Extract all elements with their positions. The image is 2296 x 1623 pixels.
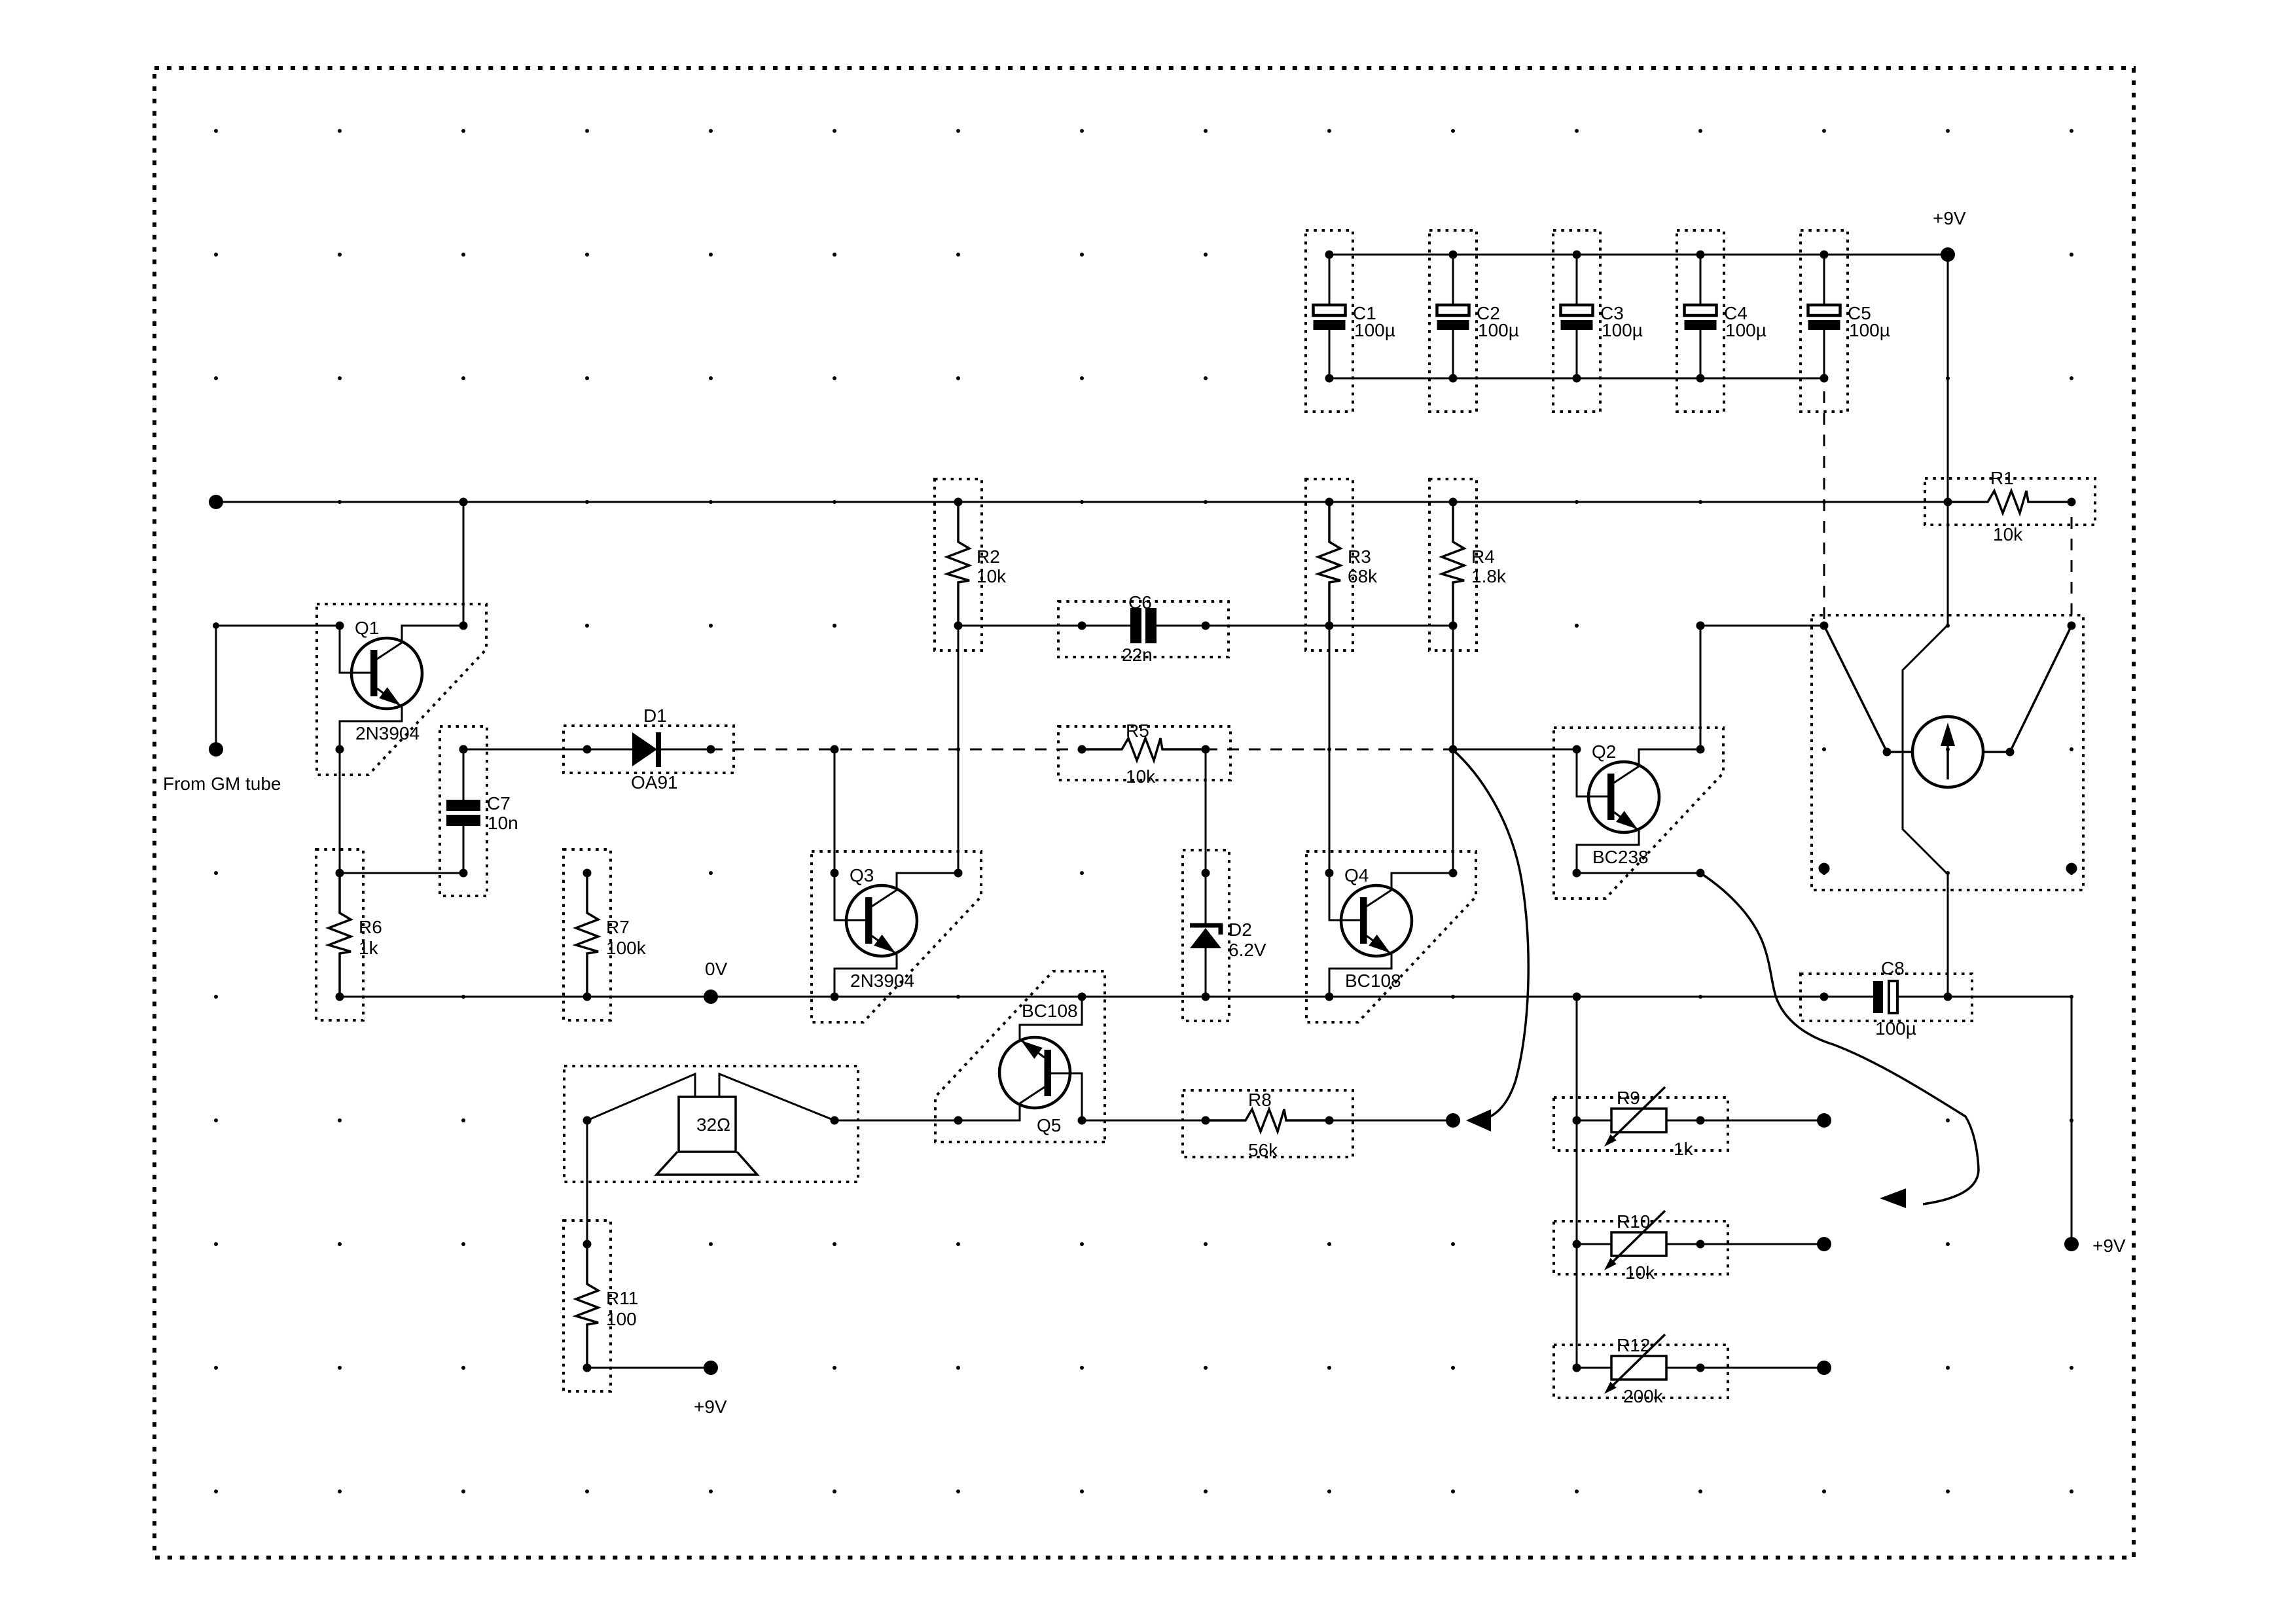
svg-text:D2: D2	[1229, 919, 1252, 940]
svg-text:100µ: 100µ	[1478, 320, 1519, 340]
svg-text:100µ: 100µ	[1849, 320, 1890, 340]
svg-text:R6: R6	[359, 917, 382, 937]
svg-text:+9V: +9V	[2092, 1236, 2126, 1256]
svg-text:Q2: Q2	[1592, 741, 1616, 762]
svg-text:2N3904: 2N3904	[355, 723, 420, 743]
svg-text:Q4: Q4	[1344, 865, 1369, 885]
svg-text:R8: R8	[1248, 1090, 1272, 1110]
svg-text:1k: 1k	[359, 938, 379, 958]
svg-text:56k: 56k	[1248, 1140, 1278, 1160]
svg-text:100µ: 100µ	[1875, 1018, 1916, 1039]
svg-text:R11: R11	[606, 1288, 638, 1308]
svg-text:6.2V: 6.2V	[1229, 940, 1266, 960]
svg-text:C7: C7	[487, 793, 511, 813]
svg-text:+9V: +9V	[694, 1397, 727, 1417]
svg-text:BC108: BC108	[1345, 971, 1401, 991]
svg-text:+9V: +9V	[1933, 208, 1966, 228]
svg-text:1k: 1k	[1674, 1139, 1694, 1159]
svg-text:BC238: BC238	[1592, 847, 1649, 867]
svg-text:0V: 0V	[705, 959, 728, 979]
svg-text:68k: 68k	[1348, 566, 1378, 586]
svg-text:Q3: Q3	[850, 865, 874, 885]
svg-text:100k: 100k	[606, 938, 647, 958]
svg-text:10k: 10k	[1625, 1262, 1655, 1283]
svg-text:10k: 10k	[1993, 524, 2023, 544]
svg-text:100µ: 100µ	[1354, 320, 1395, 340]
svg-text:C6: C6	[1128, 592, 1152, 613]
svg-text:R7: R7	[606, 917, 630, 937]
svg-text:OA91: OA91	[631, 772, 678, 793]
svg-text:Q1: Q1	[355, 618, 379, 638]
svg-text:100: 100	[606, 1309, 637, 1329]
svg-text:From GM tube: From GM tube	[163, 774, 281, 794]
svg-text:R12: R12	[1617, 1335, 1650, 1355]
svg-text:BC108: BC108	[1022, 1001, 1078, 1021]
svg-text:C8: C8	[1881, 958, 1905, 978]
svg-text:2N3904: 2N3904	[850, 971, 914, 991]
svg-text:1.8k: 1.8k	[1471, 566, 1507, 586]
svg-text:32Ω: 32Ω	[696, 1115, 730, 1135]
svg-text:22n: 22n	[1122, 645, 1153, 665]
svg-text:10n: 10n	[488, 813, 518, 833]
svg-text:R4: R4	[1471, 546, 1495, 567]
svg-text:R10: R10	[1617, 1211, 1650, 1232]
svg-text:10k: 10k	[977, 566, 1007, 586]
svg-text:100µ: 100µ	[1602, 320, 1643, 340]
svg-text:R3: R3	[1348, 546, 1371, 567]
svg-text:R1: R1	[1990, 468, 2014, 488]
svg-text:10k: 10k	[1126, 766, 1156, 787]
svg-text:Q5: Q5	[1037, 1115, 1061, 1135]
svg-text:D1: D1	[643, 705, 667, 726]
svg-text:100µ: 100µ	[1725, 320, 1767, 340]
svg-text:R5: R5	[1126, 721, 1149, 741]
svg-text:R9: R9	[1617, 1088, 1640, 1108]
svg-text:R2: R2	[977, 546, 1000, 567]
svg-text:200k: 200k	[1623, 1386, 1664, 1406]
